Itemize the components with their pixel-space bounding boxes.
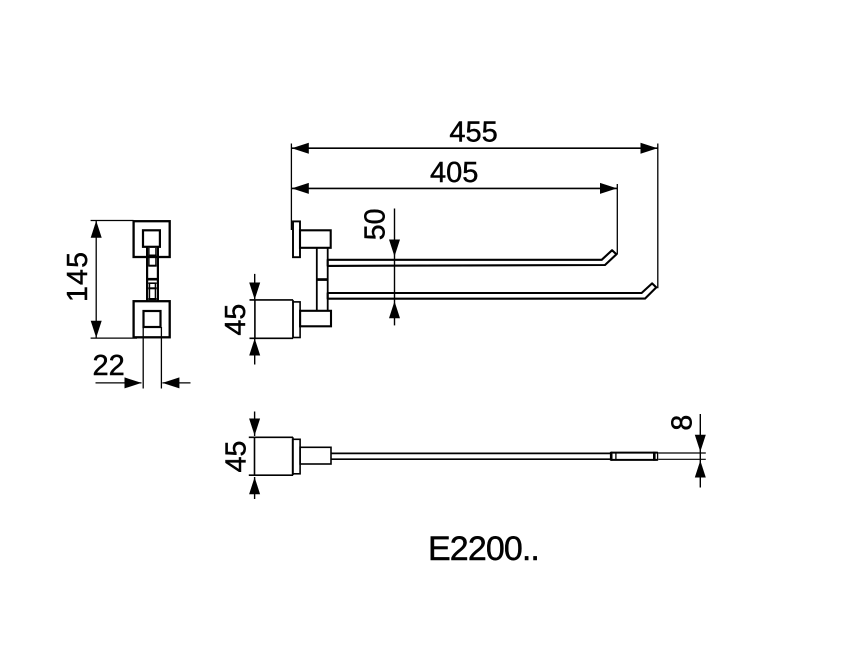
dim 22 left arrowhead — [125, 377, 142, 388]
front view upper slot tick — [148, 255, 156, 257]
side view bottom knob right edge — [292, 300, 294, 338]
svg-text:455: 455 — [449, 117, 497, 149]
front view top wall plate outer square — [134, 221, 170, 257]
dim 45 top-view dimension line — [254, 412, 256, 437]
dim 405 right extension line — [616, 184, 618, 255]
dim 22 right line — [162, 382, 190, 384]
dim 22 left extension line — [142, 327, 144, 389]
dim 405 dimension line — [292, 187, 617, 189]
dim 45 side dimension line lower part — [254, 339, 256, 365]
side view bottom knob bottom edge — [250, 337, 294, 339]
dim 45 top-view lower arrowhead — [249, 477, 260, 494]
top view knob left edge — [254, 437, 256, 475]
top view knob bottom edge — [249, 474, 293, 476]
front view lower slot left line — [149, 283, 151, 299]
dim 45 top-view dimension line lower part — [254, 477, 256, 499]
top view neck — [300, 447, 331, 464]
top view knob right edge — [292, 437, 294, 475]
dim 405 right arrowhead — [600, 183, 617, 194]
dim 45 side upper arrowhead — [249, 283, 260, 300]
side view top mounting boss — [300, 230, 331, 248]
front view post left outer line — [146, 247, 148, 301]
side view post left line — [316, 248, 318, 311]
dim 50 upper arrowhead — [389, 240, 400, 257]
dim 405 left arrowhead — [292, 183, 309, 194]
front view swivel joint bar — [146, 278, 159, 281]
top view arm top edge — [331, 452, 611, 454]
front view bottom wall plate inner square — [144, 311, 161, 327]
svg-text:22: 22 — [92, 350, 124, 382]
svg-text:45: 45 — [220, 304, 252, 336]
dim 455 dimension line — [292, 147, 658, 149]
dim 22 right extension line — [160, 327, 162, 389]
side view lower arm outline — [328, 283, 657, 298]
dim 145 bottom extension line — [91, 337, 137, 339]
top view arm bottom edge — [331, 458, 611, 460]
top view hook section bottom edge — [611, 459, 658, 461]
front view lower slot right line — [154, 283, 156, 299]
side view upper arm outline — [328, 250, 617, 266]
front view upper slot right line — [155, 248, 157, 266]
side view swivel joint bar — [317, 278, 329, 281]
dim 50 lower arrowhead — [389, 301, 400, 318]
front view lower slot top cap — [148, 282, 156, 284]
svg-text:8: 8 — [666, 415, 698, 431]
top view wall plate — [293, 439, 301, 474]
svg-text:E2200..: E2200.. — [428, 530, 539, 568]
dim 145 bottom arrowhead — [91, 321, 102, 338]
side view bottom knob left edge — [254, 300, 256, 338]
front view post right outer line — [157, 247, 159, 301]
dim 45 top-view upper arrowhead — [249, 419, 260, 436]
side view bottom knob top edge — [250, 299, 294, 301]
dim 455 left arrowhead — [292, 143, 309, 154]
dim 8 lower arrowhead — [695, 461, 706, 478]
dim 455 left extension line — [290, 144, 292, 231]
front view lower slot bottom cap — [148, 298, 156, 300]
dim 22 left line — [96, 382, 142, 384]
dim 22 right arrowhead — [162, 377, 179, 388]
top view hook section top edge — [611, 452, 658, 454]
front view top wall plate inner square — [143, 230, 160, 247]
front view bottom wall plate outer square — [134, 301, 170, 337]
side view bottom mounting boss — [300, 311, 331, 327]
top view hook tick 2 — [615, 452, 617, 461]
dim 455 right arrowhead — [641, 143, 658, 154]
top view knob top edge — [249, 436, 293, 438]
side view post right line — [327, 248, 329, 311]
front view lower slot tick — [148, 287, 156, 289]
dim 145 top arrowhead — [91, 221, 102, 238]
top view hook tick 3 — [653, 452, 656, 461]
dim 145 dimension line — [95, 221, 97, 338]
dim 455 right extension line — [657, 144, 659, 289]
top view hook tick 4 — [657, 452, 659, 461]
side view bottom wall plate — [293, 302, 300, 338]
svg-text:50: 50 — [360, 208, 392, 240]
dim 45 side lower arrowhead — [249, 339, 260, 356]
front view upper slot left line — [148, 248, 150, 266]
dim 8 upper arrowhead — [695, 435, 706, 452]
svg-text:145: 145 — [62, 251, 94, 302]
dim 50 dimension line — [394, 209, 396, 326]
dim 45 side dimension line — [254, 274, 256, 299]
svg-text:405: 405 — [430, 157, 478, 189]
svg-text:45: 45 — [220, 441, 252, 473]
dim 8 upper extension line — [658, 452, 706, 454]
dim 8 dimension line — [699, 414, 701, 488]
top view hook tick 1 — [610, 452, 613, 461]
dim 8 lower extension line — [658, 458, 706, 460]
front view upper slot bottom cap — [148, 265, 156, 267]
side view top wall plate — [293, 221, 300, 257]
dim 145 top extension line — [91, 220, 134, 222]
